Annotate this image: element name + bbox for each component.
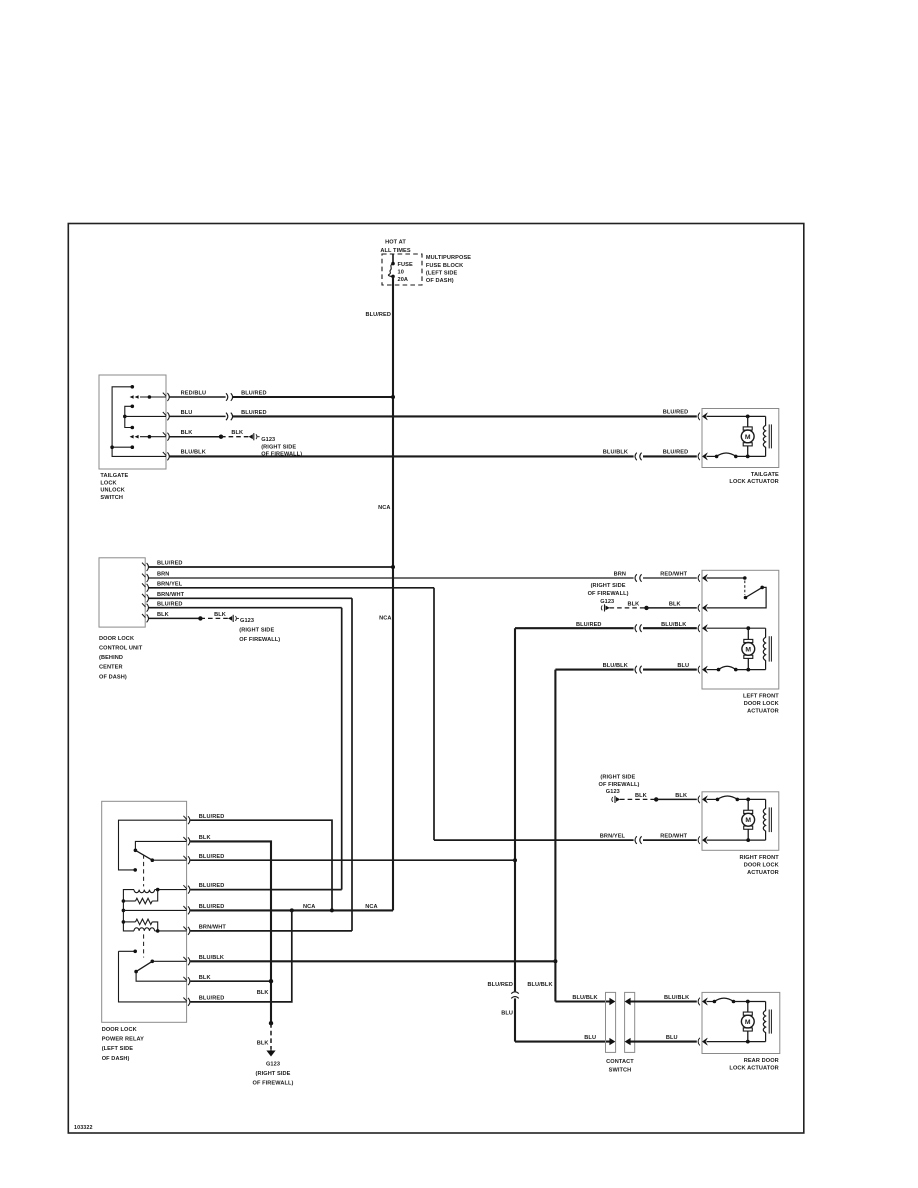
svg-text:CENTER: CENTER (99, 665, 123, 671)
svg-text:OF FIREWALL): OF FIREWALL) (253, 1081, 294, 1087)
svg-text:FUSE: FUSE (398, 262, 413, 268)
svg-text:BLK: BLK (157, 612, 169, 618)
relay pin at y=841.4 (183, 837, 190, 845)
right front door lock actuator box (702, 792, 779, 851)
tailgate switch wiper row 1 (140, 396, 166, 398)
inline connector (635, 836, 642, 844)
contact switch connector halves (606, 992, 616, 1052)
relay pin at y=961.3 (183, 957, 190, 965)
fuse element (392, 254, 394, 263)
solenoid coil tailgate actuator (763, 416, 765, 456)
rear actuator pin1 connector (698, 998, 700, 1006)
motor M tailgate actuator (741, 416, 754, 456)
svg-text:BLU/BLK: BLU/BLK (603, 663, 628, 669)
svg-text:ALL TIMES: ALL TIMES (380, 248, 410, 254)
svg-text:BLK: BLK (231, 430, 243, 436)
relay pin at y=820.2 (183, 816, 190, 824)
svg-text:LOCK: LOCK (100, 480, 116, 486)
svg-text:(RIGHT SIDE: (RIGHT SIDE (239, 628, 274, 634)
svg-text:BLU/RED: BLU/RED (199, 883, 225, 889)
svg-text:HOT AT: HOT AT (385, 240, 406, 246)
svg-text:SWITCH: SWITCH (100, 495, 123, 501)
ground connector G123 (left front) (601, 606, 602, 611)
wire BLU/RED relay row9 up to row5 (190, 910, 292, 1002)
wire BLK into LF actuator pin2 (647, 607, 697, 609)
relay pin at y=860.2 (183, 856, 190, 864)
svg-text:BLU/RED: BLU/RED (241, 410, 267, 416)
motor M rear actuator (741, 1002, 754, 1042)
svg-text:NCA: NCA (365, 904, 377, 910)
svg-text:DOOR LOCK: DOOR LOCK (102, 1027, 137, 1033)
svg-text:BLU/BLK: BLU/BLK (199, 955, 224, 961)
LF actuator bottom rail with switch (707, 669, 719, 671)
svg-text:BLK: BLK (214, 612, 226, 618)
svg-text:BLU/RED: BLU/RED (157, 601, 183, 607)
inline connector (635, 624, 642, 632)
control unit pin at y=587.8 (142, 583, 149, 591)
junction with BLU/RED feed (391, 395, 395, 399)
RF actuator top rail with switch (707, 798, 718, 800)
wire BRN/YEL vertical down (433, 588, 435, 840)
svg-text:BLK: BLK (635, 793, 647, 799)
svg-text:NCA: NCA (378, 505, 390, 511)
svg-text:(RIGHT SIDE: (RIGHT SIDE (261, 445, 296, 451)
svg-text:BRN/WHT: BRN/WHT (157, 592, 185, 598)
junction motor bottom (746, 1040, 750, 1044)
tailgate actuator pin2 connector (698, 453, 700, 461)
svg-text:OF DASH): OF DASH) (426, 278, 454, 284)
rear actuator pin2 connector (698, 1038, 700, 1046)
bottom switch unused contact (133, 950, 137, 954)
svg-text:REAR DOOR: REAR DOOR (744, 1058, 779, 1064)
junction middle rail to pin 2 (123, 415, 127, 419)
junction motor top (746, 626, 750, 630)
svg-text:M: M (745, 817, 751, 824)
wire BLU/RED relay row3 to splice (190, 859, 515, 861)
wire BLU/RED control unit pin1 to feed (149, 566, 393, 568)
wire BLK dashed to firewall (200, 617, 228, 619)
bottom switch arm (136, 961, 152, 971)
wire BLU/RED row2 to tailgate actuator (233, 415, 697, 417)
svg-text:BLK: BLK (181, 430, 193, 436)
wire BRN/WHT relay row6 (190, 930, 352, 932)
svg-text:BLU: BLU (584, 1035, 596, 1041)
wire BLU/BLK into LF actuator pin3 (643, 627, 697, 629)
inline connector row2 (226, 413, 233, 421)
wire BLU/RED into tailgate actuator pin2 (643, 455, 697, 457)
motor M left front actuator (742, 628, 755, 669)
junction coil1 output (156, 888, 160, 892)
svg-text:103322: 103322 (74, 1125, 93, 1131)
control unit pin at y=607.7 (142, 603, 149, 611)
svg-text:RIGHT FRONT: RIGHT FRONT (739, 855, 779, 861)
svg-text:M: M (745, 434, 751, 441)
page border frame (68, 224, 804, 1134)
junction motor top (746, 415, 750, 419)
svg-text:BLU/RED: BLU/RED (157, 561, 183, 567)
svg-text:20A: 20A (398, 277, 409, 283)
tailgate lock unlock switch box (99, 375, 166, 469)
motor M right front actuator (742, 799, 755, 840)
svg-text:(LEFT SIDE: (LEFT SIDE (426, 270, 458, 276)
svg-text:BLK: BLK (669, 602, 681, 608)
tailgate switch stationary contacts (131, 385, 135, 389)
tailgate switch internal left rail (112, 387, 166, 457)
RF actuator pin1 connector (698, 796, 700, 804)
wire BLK control unit pin6 (149, 617, 201, 619)
wire BRN/YEL control unit pin3 (149, 587, 434, 589)
wire BLU/BLK into contact switch (555, 1000, 612, 1002)
wire RED/WHT into left front actuator pin1 (643, 577, 697, 579)
svg-text:DOOR LOCK: DOOR LOCK (744, 701, 779, 707)
wire BLU into contact switch (515, 1041, 613, 1043)
rear actuator bottom rail (707, 1041, 766, 1043)
switch arm (746, 587, 763, 597)
top switch pivot (134, 849, 138, 853)
ground symbol G123 (266, 1051, 275, 1057)
junction with BLU/RED feed (391, 565, 395, 569)
wire BLU/BLK vertical x=555 (554, 670, 556, 1002)
relay row5 internal (122, 909, 126, 913)
svg-text:BLU/RED: BLU/RED (199, 996, 225, 1002)
wire BLK tailgate switch pin3 (170, 436, 222, 438)
inline connector row4 (635, 453, 642, 461)
svg-text:BLK: BLK (199, 975, 211, 981)
inline connector BLU/RED to BLU (511, 992, 519, 999)
svg-text:RED/BLU: RED/BLU (181, 391, 207, 397)
RF actuator position switch contact (718, 796, 738, 799)
svg-text:OF FIREWALL): OF FIREWALL) (599, 782, 640, 788)
tailgate actuator pin1 connector (698, 413, 700, 421)
relay internal: top switch common (135, 841, 186, 850)
svg-text:CONTACT: CONTACT (606, 1059, 634, 1065)
svg-text:OF FIREWALL): OF FIREWALL) (588, 591, 629, 597)
tailgate switch contact stub lower-left (112, 446, 132, 448)
mechanical link dashed (top) (143, 855, 145, 887)
svg-text:G123: G123 (240, 618, 254, 624)
svg-text:RED/WHT: RED/WHT (660, 834, 687, 840)
wire BLU/BLK relay row7 (190, 960, 555, 962)
svg-text:M: M (745, 1019, 751, 1026)
svg-text:BLU/RED: BLU/RED (365, 312, 391, 318)
junction motor top (746, 798, 750, 802)
relay row3 internal wire (152, 859, 186, 861)
wire BLK dashed from firewall (610, 607, 647, 609)
tailgate switch pin 2 internal wire (125, 415, 166, 417)
junction motor bottom (746, 455, 750, 459)
relay row7 internal wire (152, 960, 186, 962)
ground connector G123 (right front) (612, 797, 613, 802)
svg-text:BLK: BLK (675, 793, 687, 799)
relay pin at y=910.4 (183, 906, 190, 914)
wire BLU/BLK to LF pin4 (555, 669, 633, 671)
svg-text:BLU/RED: BLU/RED (241, 391, 267, 397)
top switch unused contact (133, 868, 137, 872)
multipurpose fuse block (dashed box) (382, 254, 422, 285)
svg-text:BLU/BLK: BLU/BLK (527, 982, 552, 988)
wire BLK relay row8 (190, 980, 271, 982)
wire BLU/RED relay row4 (190, 889, 342, 891)
mechanical link dashed (bottom) (143, 934, 145, 957)
wire RED/BLU tailgate switch pin1 (170, 396, 226, 398)
wire BLU/RED from splice vertical to LF pin3 (515, 627, 634, 629)
svg-text:BLU/RED: BLU/RED (487, 982, 513, 988)
svg-text:(LEFT SIDE: (LEFT SIDE (102, 1046, 134, 1052)
wire BLU vertical below connector (514, 998, 516, 1041)
svg-text:UNLOCK: UNLOCK (100, 488, 125, 494)
tailgate actuator position switch (717, 453, 736, 456)
splice dot BLK (644, 606, 648, 610)
mechanical link dashed (744, 581, 746, 596)
ground connector G123 (tailgate) (256, 434, 257, 439)
door lock power relay box (102, 801, 187, 1022)
solenoid coil left front actuator (763, 628, 765, 669)
svg-text:MULTIPURPOSE: MULTIPURPOSE (426, 255, 471, 261)
svg-text:SWITCH: SWITCH (609, 1067, 632, 1073)
svg-text:BLU: BLU (677, 663, 689, 669)
junction motor top (746, 1000, 750, 1004)
tailgate lock actuator box (702, 409, 779, 468)
wire BLU/RED relay row1 (190, 820, 332, 910)
svg-text:BLU/BLK: BLU/BLK (661, 622, 686, 628)
junction motor bottom (746, 838, 750, 842)
rear door lock actuator box (702, 992, 780, 1053)
solenoid coil rear actuator (763, 1002, 765, 1042)
rear actuator position switch contact (714, 998, 733, 1001)
bottom switch pivot (134, 970, 138, 974)
splice dot BLK (269, 1021, 273, 1025)
bottom switch contact to row7 (151, 960, 155, 964)
top switch arm (135, 850, 152, 860)
svg-text:BLU/BLK: BLU/BLK (181, 449, 206, 455)
LF actuator position switch contact (719, 666, 736, 669)
wire BLU from contact switch to rear actuator (627, 1041, 696, 1043)
tailgate switch wiper row 3 (140, 436, 166, 438)
svg-text:OF DASH): OF DASH) (102, 1056, 130, 1062)
svg-text:TAILGATE: TAILGATE (100, 473, 128, 479)
svg-text:DOOR LOCK: DOOR LOCK (99, 636, 134, 642)
switch pivot (744, 596, 748, 600)
LF actuator pin4 connector (698, 666, 700, 674)
svg-text:BLU/RED: BLU/RED (576, 622, 602, 628)
svg-text:BLU: BLU (181, 410, 193, 416)
wire BLU/RED control unit pin5 (149, 607, 342, 609)
RF actuator bottom rail (707, 839, 766, 841)
svg-text:BLU/RED: BLU/RED (199, 904, 225, 910)
svg-text:(BEHIND: (BEHIND (99, 655, 123, 661)
junction relay row7 (553, 959, 557, 963)
svg-text:BLU/BLK: BLU/BLK (572, 995, 597, 1001)
inline connector row1 (226, 393, 233, 401)
wire BLU tailgate switch pin2 (170, 415, 226, 417)
LF actuator pin1 connector (698, 574, 700, 582)
ground connector G123 (control unit) (235, 616, 236, 621)
svg-text:G123: G123 (261, 437, 275, 443)
relay coil 2 winding (134, 928, 155, 931)
splice dot BLK (198, 616, 202, 620)
wire BLU/BLK from contact switch to rear actuator (627, 1000, 696, 1002)
control unit pin at y=578 (142, 574, 149, 582)
junction row9 riser (290, 908, 294, 912)
tailgate switch pins (163, 393, 169, 401)
wire BRN/WHT control unit pin4 (149, 597, 352, 599)
control unit pin at y=618.4 (142, 614, 149, 622)
svg-text:BRN/YEL: BRN/YEL (157, 581, 183, 587)
svg-text:DOOR LOCK: DOOR LOCK (744, 862, 779, 868)
relay pin at y=930.9 (183, 927, 190, 935)
relay coil block 1 (123, 890, 134, 931)
wire BLU/RED vertical splice x=515 (514, 628, 516, 991)
relay internal: top switch left rail (119, 820, 187, 870)
svg-text:BLK: BLK (257, 990, 269, 996)
svg-text:BLU/RED: BLU/RED (199, 854, 225, 860)
resistor relay coil 2 (136, 919, 153, 925)
svg-text:BLU: BLU (666, 1035, 678, 1041)
junction row1 riser (330, 908, 334, 912)
svg-text:(RIGHT SIDE: (RIGHT SIDE (591, 583, 626, 589)
tailgate actuator bottom rail (707, 455, 717, 457)
junction relay row3 (513, 858, 517, 862)
relay internal: bottom switch (119, 950, 136, 952)
inline connector (635, 666, 642, 674)
svg-text:LEFT FRONT: LEFT FRONT (743, 694, 779, 700)
svg-text:BLK: BLK (628, 602, 640, 608)
svg-text:BLU/RED: BLU/RED (199, 814, 225, 820)
svg-text:ACTUATOR: ACTUATOR (747, 870, 779, 876)
svg-text:LOCK ACTUATOR: LOCK ACTUATOR (729, 1066, 778, 1072)
svg-text:M: M (745, 646, 751, 653)
svg-text:BRN: BRN (157, 572, 169, 578)
svg-text:NCA: NCA (303, 904, 315, 910)
wire BLK relay row2 down to ground (190, 841, 271, 1023)
svg-text:FUSE BLOCK: FUSE BLOCK (426, 263, 463, 269)
svg-text:G123: G123 (266, 1062, 280, 1068)
wire RED/WHT into RF actuator pin2 (643, 839, 697, 841)
tailgate actuator top rail (707, 415, 766, 417)
wire BLU/RED vertical down to relay row4 (341, 608, 343, 890)
wire BRN control unit pin2 to left front actuator (149, 577, 634, 579)
svg-text:(RIGHT SIDE: (RIGHT SIDE (600, 774, 635, 780)
wire BLK dashed from firewall (620, 798, 656, 800)
svg-text:BLK: BLK (199, 835, 211, 841)
junction motor bottom (746, 668, 750, 672)
wire BLU into LF actuator pin4 (643, 669, 697, 671)
relay pin at y=1001.9 (183, 998, 190, 1006)
svg-text:(RIGHT SIDE: (RIGHT SIDE (256, 1071, 291, 1077)
svg-text:BLU/RED: BLU/RED (663, 410, 689, 416)
wire BLU/RED relay row5 (NCA splices) to feed (190, 909, 393, 911)
svg-text:G123: G123 (600, 599, 614, 605)
LF actuator pin2 connector (698, 604, 700, 612)
relay pin at y=889.6 (183, 885, 190, 893)
wire BRN/WHT vertical down to relay row6 (351, 598, 353, 931)
relay coil block 2 resistor (122, 920, 126, 924)
control unit pin at y=567 (142, 563, 149, 571)
svg-text:BRN: BRN (614, 572, 626, 578)
wire BLU/RED row1 to feed junction (233, 396, 393, 398)
relay coil 1 winding (134, 890, 155, 893)
splice dot BLK (654, 797, 658, 801)
junction BLK (269, 979, 273, 983)
wire BLK into RF actuator pin1 (656, 798, 697, 800)
inline connector BRN/REDWHT (635, 574, 642, 582)
LF actuator motor circuit top rail (707, 627, 766, 629)
svg-text:POWER RELAY: POWER RELAY (102, 1037, 144, 1043)
top switch contact to row3 (151, 858, 155, 862)
svg-text:BRN/YEL: BRN/YEL (600, 834, 626, 840)
relay coil 1 parallel resistor (122, 899, 126, 903)
rear actuator top rail with switch (707, 1001, 715, 1003)
svg-text:RED/WHT: RED/WHT (660, 572, 687, 578)
svg-text:NCA: NCA (379, 616, 391, 622)
svg-text:G123: G123 (606, 789, 620, 795)
LF actuator pin3 connector (698, 624, 700, 632)
svg-text:BLU: BLU (501, 1011, 513, 1017)
wire BLK dashed to ground (270, 1023, 272, 1049)
junction coil2 output (156, 929, 160, 933)
RF actuator pin2 connector (698, 836, 700, 844)
resistor relay coil 1 (136, 898, 153, 904)
tailgate switch internal middle rail (125, 406, 133, 427)
wire BLU/BLK tailgate switch pin4 (170, 455, 634, 457)
svg-text:BLU/BLK: BLU/BLK (664, 995, 689, 1001)
svg-text:ACTUATOR: ACTUATOR (747, 709, 779, 715)
svg-text:LOCK ACTUATOR: LOCK ACTUATOR (729, 479, 778, 485)
wire BRN/YEL horizontal to RF pin2 (434, 839, 634, 841)
solenoid coil right front actuator (763, 799, 765, 840)
svg-text:BLK: BLK (257, 1041, 269, 1047)
LF actuator lock position switch (707, 577, 745, 579)
svg-text:BLU/RED: BLU/RED (663, 449, 689, 455)
wire BLU/RED vertical feed from fuse (392, 276, 394, 910)
svg-text:OF DASH): OF DASH) (99, 674, 127, 680)
relay pin at y=981.2 (183, 977, 190, 985)
wire BLK dashed to firewall (221, 436, 249, 438)
svg-text:BLU/BLK: BLU/BLK (603, 449, 628, 455)
svg-text:CONTROL UNIT: CONTROL UNIT (99, 646, 143, 652)
left front door lock actuator box (702, 570, 779, 689)
door lock control unit box (99, 558, 145, 627)
svg-text:OF FIREWALL): OF FIREWALL) (239, 637, 280, 643)
svg-text:BRN/WHT: BRN/WHT (199, 925, 227, 931)
svg-text:10: 10 (398, 270, 404, 276)
junction on left rail (110, 445, 114, 449)
control unit pin at y=598.3 (142, 594, 149, 602)
svg-text:TAILGATE: TAILGATE (751, 472, 779, 478)
splice dot BLK (219, 435, 223, 439)
